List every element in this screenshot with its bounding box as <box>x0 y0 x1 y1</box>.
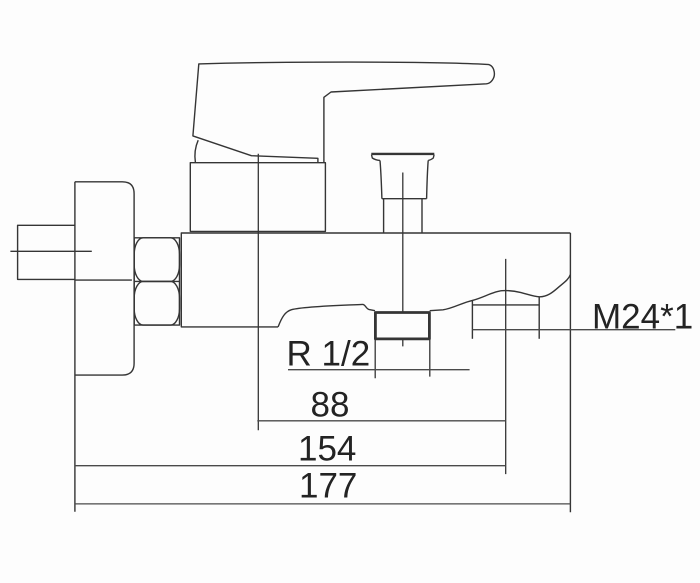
supply pipe <box>18 225 75 279</box>
shower outlet right extension <box>538 297 540 339</box>
diverter knob brim sides <box>372 155 435 161</box>
88 dimension line <box>257 420 505 422</box>
svg-text:154: 154 <box>298 429 356 468</box>
R 1/2 leader line <box>288 369 470 371</box>
faucet body <box>181 233 570 327</box>
svg-text:177: 177 <box>299 467 357 506</box>
M24*1 leader line <box>472 329 675 331</box>
hex nut upper facet <box>134 238 179 282</box>
svg-text:88: 88 <box>311 385 350 424</box>
shower outlet shoulder <box>472 304 539 306</box>
handle skirt arc <box>195 140 198 162</box>
diverter knob brim top <box>371 153 434 155</box>
154 dimension line <box>75 465 506 467</box>
svg-text:M24*1: M24*1 <box>592 297 693 336</box>
shower outlet centerline <box>505 259 507 474</box>
body right edge + 177 extension <box>569 233 571 512</box>
aerator extension lines <box>375 340 430 379</box>
knob centerline <box>402 173 404 347</box>
cartridge centerline <box>257 154 259 431</box>
diverter knob cup <box>380 160 428 198</box>
hex nut midline <box>134 280 179 282</box>
svg-text:R 1/2: R 1/2 <box>287 335 371 374</box>
lever handle <box>193 62 495 162</box>
supply pipe hidden bottom segment <box>75 279 132 281</box>
flange left edge + 154/177 extension line <box>74 182 76 512</box>
177 dimension line <box>75 503 571 505</box>
aerator (bottom outlet) <box>375 313 429 339</box>
diverter knob stem <box>384 199 422 233</box>
hex nut <box>134 238 179 325</box>
supply pipe centerline <box>10 250 91 252</box>
spout underside curve (left of aerator) <box>278 304 375 327</box>
cartridge housing <box>190 163 325 232</box>
hex nut lower facet <box>134 281 179 325</box>
shower outlet left extension <box>471 300 473 338</box>
wall flange (escutcheon) <box>75 182 134 375</box>
spout underside curve (right of aerator) <box>430 275 571 311</box>
